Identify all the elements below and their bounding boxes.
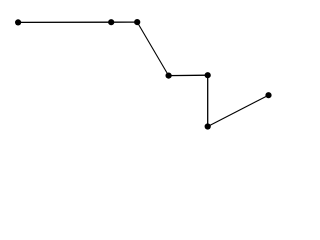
- wire segment node6-node7: [208, 95, 269, 126]
- node 2: [108, 19, 114, 25]
- wire segment node4-node5: [169, 74, 208, 76]
- node 7: [265, 92, 271, 98]
- node 5: [205, 72, 211, 78]
- wire segment node3-node4: [137, 22, 168, 76]
- wire segment node2-node3: [111, 21, 137, 23]
- node 6: [205, 123, 211, 129]
- node 1: [15, 19, 21, 25]
- wire segment node1-node2: [18, 21, 111, 23]
- node 3: [134, 19, 140, 25]
- node 4: [166, 73, 172, 79]
- wire segment node5-node6: [207, 75, 209, 126]
